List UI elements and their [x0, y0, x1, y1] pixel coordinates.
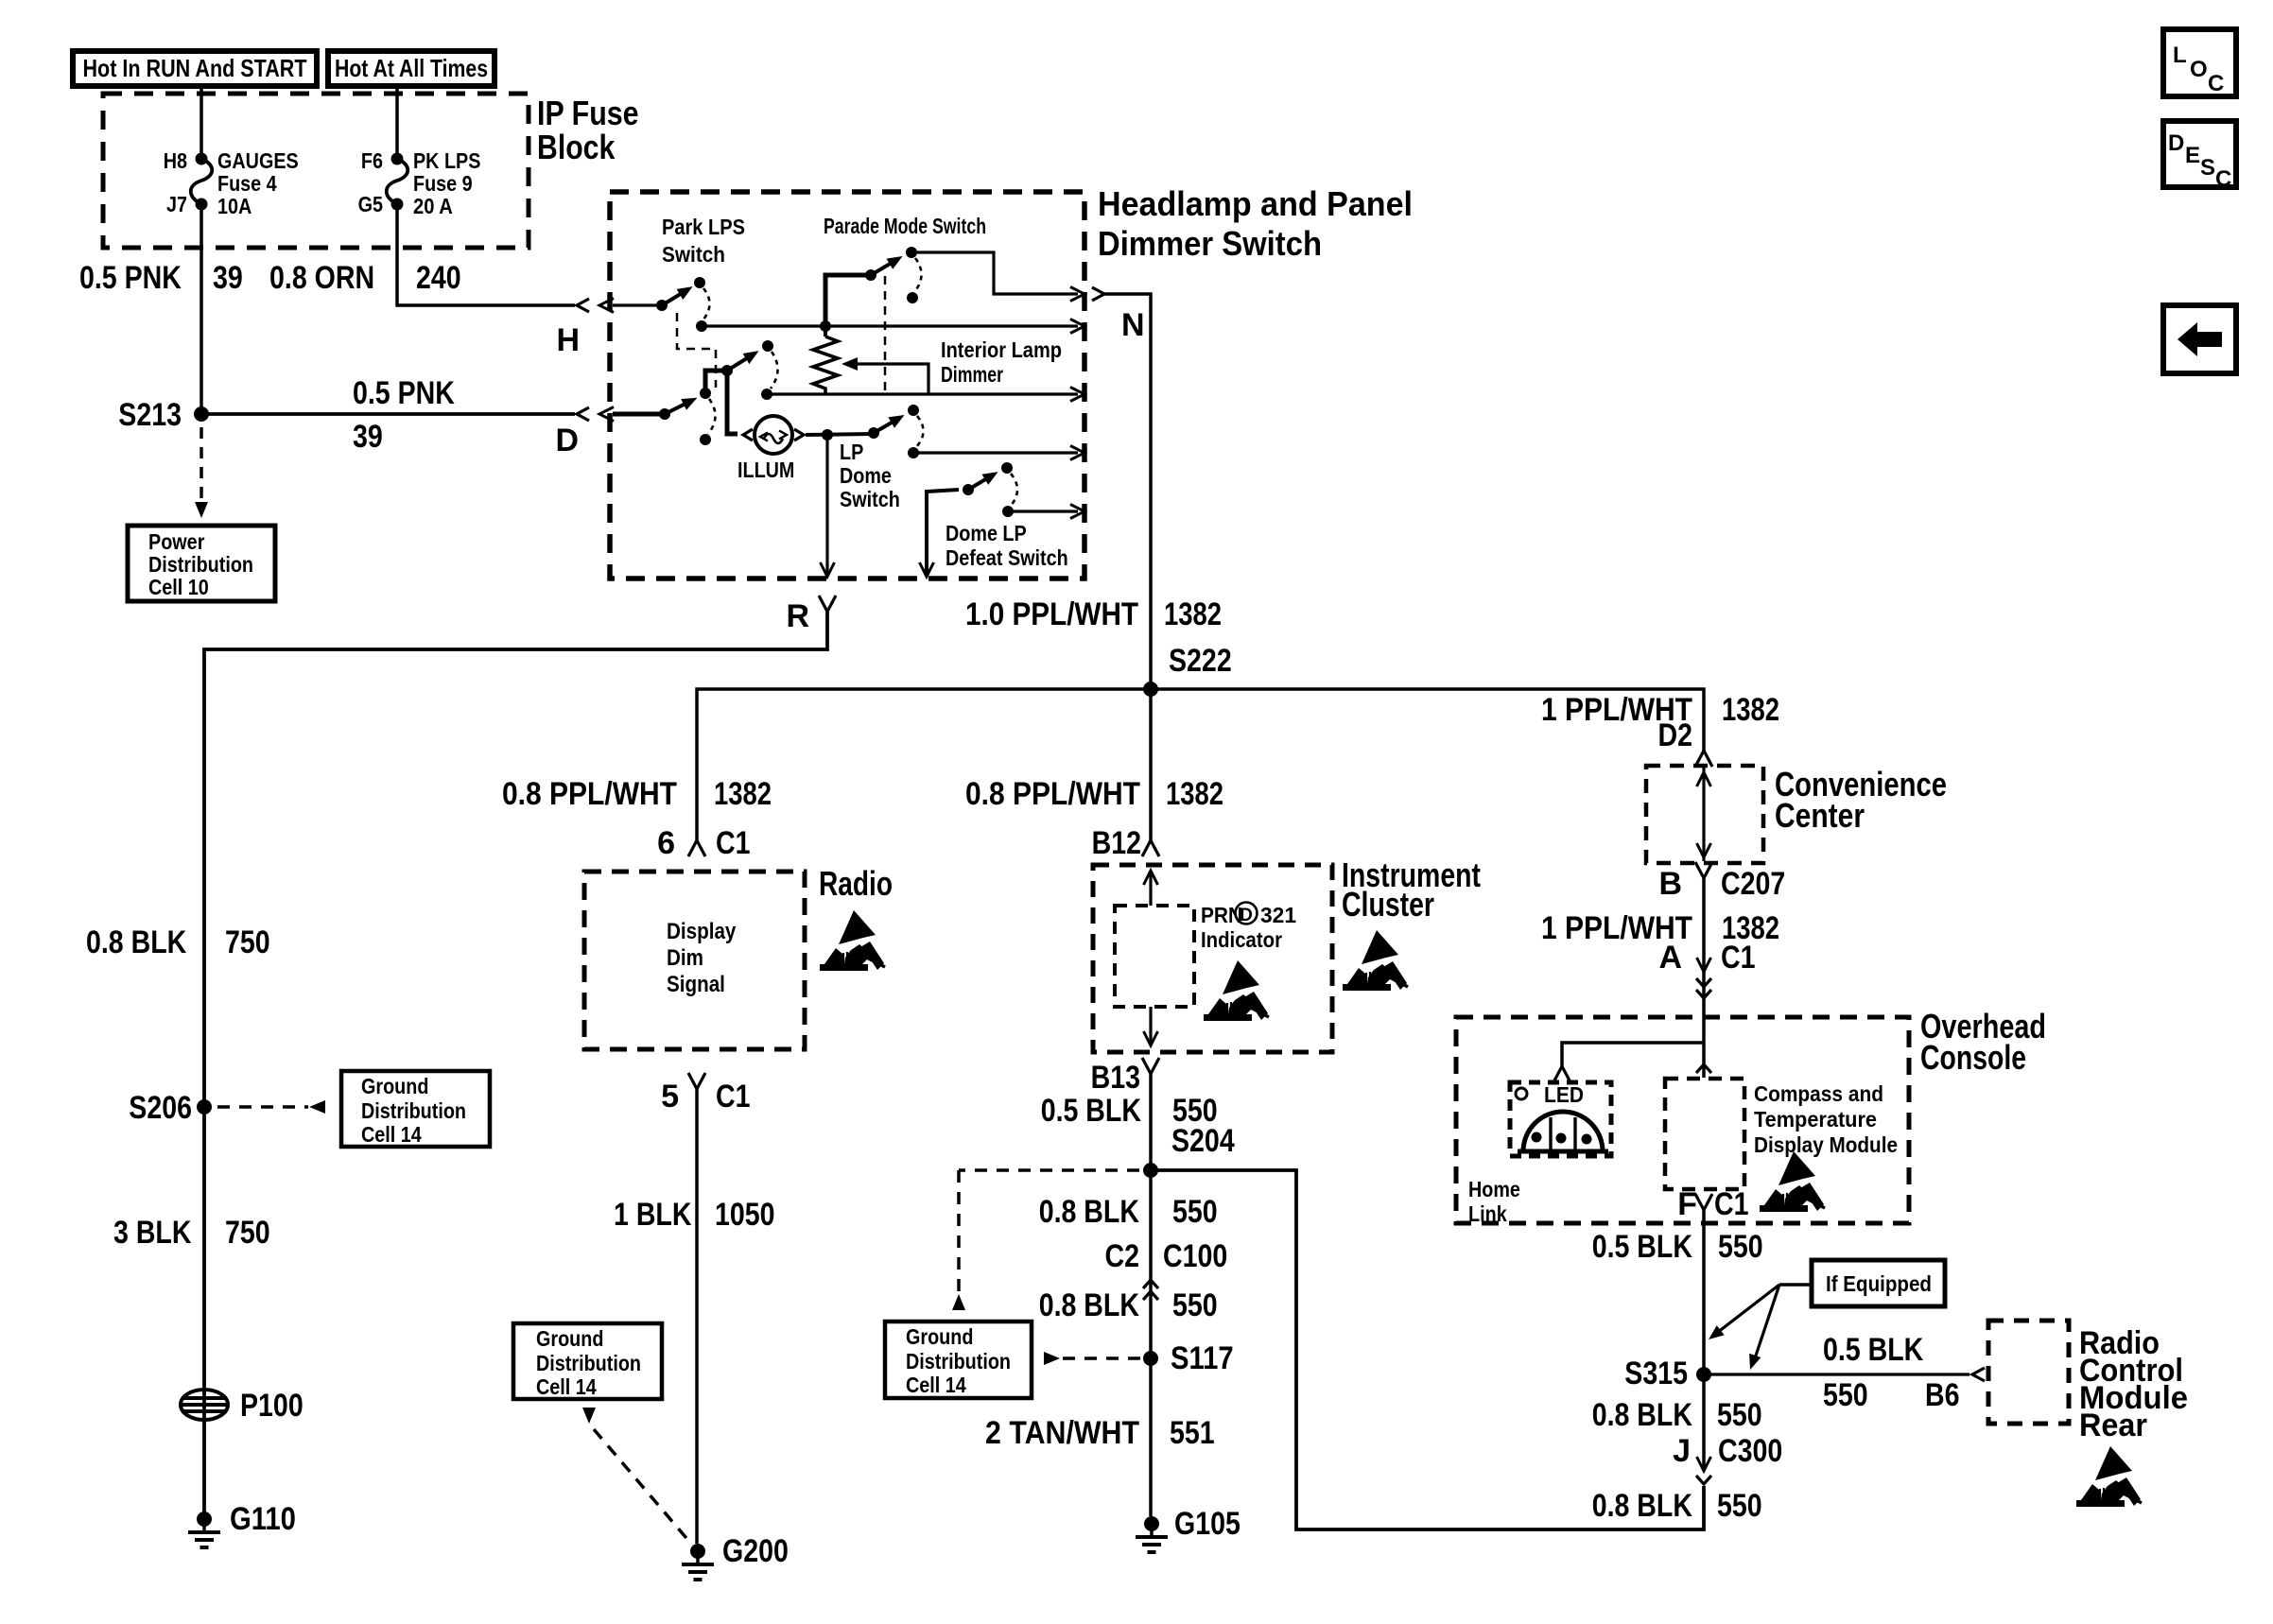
svg-text:550: 550	[1717, 1397, 1762, 1433]
svg-text:0.8 PPL/WHT: 0.8 PPL/WHT	[502, 776, 677, 812]
connector N and wire to S222	[1092, 287, 1104, 301]
svg-text:1382: 1382	[714, 776, 772, 812]
svg-text:Headlamp and Panel: Headlamp and Panel	[1098, 184, 1413, 223]
svg-text:Dim: Dim	[667, 945, 703, 971]
connector B12 fork	[1142, 840, 1159, 856]
svg-text:Cell 10: Cell 10	[148, 575, 209, 599]
svg-text:Home: Home	[1468, 1177, 1520, 1201]
svg-text:750: 750	[225, 1215, 270, 1251]
svg-text:If Equipped: If Equipped	[1826, 1271, 1932, 1296]
reference box: If Equipped	[1812, 1260, 1945, 1306]
pointer arrows from If Equipped	[1779, 1283, 1812, 1287]
fork to HomeLink LED	[1553, 1066, 1570, 1082]
svg-text:Display Module: Display Module	[1754, 1132, 1898, 1157]
wire: pole 3 pivot down to ILLUM lamp	[727, 371, 737, 434]
svg-text:Parade Mode Switch: Parade Mode Switch	[824, 214, 986, 238]
svg-text:B12: B12	[1092, 825, 1141, 861]
fuse F9 PK LPS 20A	[391, 153, 404, 165]
svg-text:550: 550	[1172, 1287, 1218, 1323]
wire: pole 2 contact up to panel dimmer pole pivot	[705, 371, 727, 393]
svg-text:ILLUM: ILLUM	[737, 458, 794, 482]
svg-text:750: 750	[225, 924, 270, 960]
ground G200	[690, 1544, 705, 1559]
connector F C1 fork	[1695, 1194, 1712, 1210]
svg-text:20 A: 20 A	[413, 194, 453, 218]
svg-text:240: 240	[416, 260, 461, 296]
svg-text:C1: C1	[1721, 940, 1756, 976]
wire: S222 left branch to radio	[697, 689, 1151, 840]
splice S315	[1696, 1367, 1711, 1382]
svg-text:Compass and: Compass and	[1754, 1081, 1883, 1106]
svg-text:LP: LP	[840, 440, 863, 464]
svg-text:0.5 BLK: 0.5 BLK	[1592, 1229, 1693, 1265]
wire: S222 right branch to convenience center	[1151, 689, 1704, 751]
svg-text:550: 550	[1172, 1194, 1218, 1230]
svg-text:Dimmer Switch: Dimmer Switch	[1098, 224, 1322, 263]
svg-text:1382: 1382	[1722, 692, 1779, 728]
svg-text:3 BLK: 3 BLK	[113, 1215, 192, 1251]
reference box: Ground Distribution Cell 14 (left)	[341, 1071, 490, 1147]
svg-text:Switch: Switch	[662, 242, 725, 267]
ILLUM lamp connectors and bulb	[743, 429, 753, 441]
connector B6 fork	[1972, 1368, 1985, 1381]
svg-text:Distribution: Distribution	[361, 1098, 466, 1123]
svg-text:C: C	[2215, 166, 2231, 192]
svg-text:J7: J7	[166, 192, 187, 216]
svg-text:Rear: Rear	[2079, 1408, 2147, 1443]
mechanical linkage (dashed) parade switch	[884, 276, 887, 394]
reference box: Power Distribution Cell 10	[128, 526, 275, 601]
svg-text:IP Fuse: IP Fuse	[537, 94, 639, 132]
panel lamps switch pole 3 (feeds ILLUM)	[721, 365, 733, 376]
splice S206	[197, 1099, 212, 1114]
Convenience Center dashed outline	[1646, 766, 1763, 863]
svg-text:Distribution: Distribution	[906, 1349, 1011, 1373]
ESD symbol (radio)	[820, 910, 885, 971]
svg-text:C207: C207	[1721, 866, 1785, 902]
dashed reference: S206 to Ground Distribution	[217, 1105, 308, 1109]
svg-text:Cell 14: Cell 14	[361, 1122, 422, 1147]
svg-text:Fuse 4: Fuse 4	[217, 171, 277, 196]
wire: C207 to overhead console	[1702, 878, 1706, 1017]
svg-text:D2: D2	[1658, 717, 1693, 753]
svg-text:1382: 1382	[1166, 776, 1223, 812]
svg-text:Indicator: Indicator	[1201, 927, 1282, 952]
ESD symbol (radio control module)	[2076, 1446, 2142, 1507]
LP Dome Switch	[868, 427, 879, 439]
wire: defeat switch output to right edge	[1008, 510, 1078, 512]
wire: parade switch to N output	[911, 252, 1078, 294]
svg-text:550: 550	[1718, 1229, 1763, 1265]
svg-text:LED: LED	[1544, 1082, 1584, 1107]
svg-text:0.8 ORN: 0.8 ORN	[269, 260, 374, 296]
svg-text:C1: C1	[716, 1079, 751, 1114]
junction dot parade feed on pole-1 line	[820, 320, 831, 332]
wire: S222 down to instrument cluster B12	[1149, 689, 1153, 840]
wire: S315 to radio control module B6	[1704, 1373, 1969, 1375]
svg-text:N: N	[1121, 307, 1145, 343]
svg-text:S206: S206	[129, 1090, 192, 1126]
svg-text:Distribution: Distribution	[148, 552, 253, 577]
svg-text:S204: S204	[1171, 1123, 1235, 1159]
svg-text:39: 39	[353, 419, 383, 455]
Radio dashed outline	[584, 872, 805, 1049]
svg-text:S117: S117	[1171, 1340, 1234, 1376]
wire through convenience center with arrows	[1702, 768, 1705, 861]
wire: LP dome switch output to right edge	[913, 451, 1078, 454]
svg-text:1.0 PPL/WHT: 1.0 PPL/WHT	[965, 596, 1138, 632]
svg-text:O: O	[2190, 57, 2208, 82]
svg-text:G5: G5	[358, 192, 384, 216]
svg-text:PK LPS: PK LPS	[413, 148, 480, 173]
svg-text:Temperature: Temperature	[1754, 1107, 1877, 1132]
svg-text:Ground: Ground	[361, 1074, 428, 1098]
svg-text:D: D	[555, 423, 579, 458]
svg-text:321: 321	[1260, 903, 1296, 927]
wire: Hot At All Times feed down to fuse 9	[395, 86, 399, 159]
park lamps switch pole 2 (lower, on D feed)	[659, 408, 670, 420]
svg-text:Block: Block	[537, 128, 616, 166]
svg-text:551: 551	[1170, 1415, 1215, 1451]
svg-text:Fuse 9: Fuse 9	[413, 171, 473, 196]
junction dot for LP dome feed	[822, 429, 833, 441]
svg-text:B13: B13	[1091, 1060, 1140, 1096]
ESD symbol (compass module)	[1760, 1151, 1825, 1212]
svg-text:Cell 14: Cell 14	[536, 1374, 597, 1399]
svg-text:C1: C1	[1714, 1186, 1749, 1222]
svg-text:D: D	[2168, 130, 2184, 156]
svg-text:0.8 BLK: 0.8 BLK	[1039, 1194, 1140, 1230]
svg-text:Dome LP: Dome LP	[946, 521, 1027, 545]
svg-text:0.5 PNK: 0.5 PNK	[353, 375, 455, 411]
ground G105	[1144, 1516, 1159, 1531]
svg-text:Radio: Radio	[819, 864, 893, 903]
svg-text:Ground: Ground	[906, 1324, 973, 1349]
connector D at dimmer switch (fork and arrow)	[577, 407, 589, 421]
svg-text:Cluster: Cluster	[1342, 885, 1434, 924]
svg-text:G110: G110	[230, 1501, 296, 1537]
svg-text:G200: G200	[722, 1533, 789, 1569]
LED dome symbol	[1523, 1112, 1603, 1151]
dashed reference arrow: S213 to Power Distribution	[200, 427, 203, 501]
svg-text:Park LPS: Park LPS	[662, 215, 745, 239]
svg-text:C: C	[2208, 71, 2224, 96]
chevron into compass module	[1696, 1064, 1711, 1073]
wire: ILLUM to LP dome switch	[806, 434, 874, 435]
PRND321 Indicator dashed box	[1115, 906, 1194, 1007]
svg-text:S315: S315	[1624, 1356, 1688, 1391]
LED dashed box	[1510, 1082, 1611, 1156]
wire: S204 branch to overhead console ground return	[1151, 1170, 1704, 1529]
wire: B13 down to G105	[1149, 1074, 1153, 1516]
svg-text:C1: C1	[716, 825, 751, 861]
svg-text:B: B	[1658, 866, 1682, 902]
arrow into PRND321 indicator	[1149, 871, 1152, 906]
wire: S315 down to J C300	[1702, 1374, 1706, 1471]
Overhead Console dashed outline	[1456, 1017, 1909, 1223]
dashed reference: S204 to Ground Distribution (right)	[959, 1168, 1139, 1172]
connector B13 fork	[1142, 1058, 1159, 1074]
wire: fuse 9 down and right to connector H	[397, 204, 575, 305]
Dome LP Defeat Switch	[927, 490, 959, 574]
svg-text:550: 550	[1823, 1377, 1868, 1413]
svg-text:Hot In RUN And START: Hot In RUN And START	[83, 54, 307, 82]
svg-text:1050: 1050	[715, 1197, 775, 1233]
svg-text:C2: C2	[1105, 1238, 1140, 1274]
reference box LOC	[2163, 29, 2236, 96]
svg-text:S222: S222	[1169, 643, 1232, 679]
dashed reference: Ground Distribution to S117	[1044, 1352, 1060, 1365]
arrow out of PRND321 indicator	[1149, 1007, 1152, 1045]
svg-text:0.5 BLK: 0.5 BLK	[1823, 1332, 1924, 1368]
connector R below dimmer switch	[819, 596, 836, 612]
connector 5 C1 fork below radio	[688, 1073, 705, 1089]
Instrument Cluster dashed outline	[1093, 865, 1332, 1052]
power feed box: Hot In RUN And START	[73, 51, 317, 86]
Compass and Temperature Display Module dashed box	[1665, 1079, 1744, 1189]
connector 6 C1 fork at radio	[688, 840, 705, 856]
svg-text:F6: F6	[361, 148, 383, 173]
svg-text:H8: H8	[164, 148, 187, 173]
svg-text:Dome: Dome	[840, 463, 892, 488]
svg-text:550: 550	[1717, 1488, 1762, 1524]
wire: LP dome junction down to R output	[825, 435, 828, 575]
svg-text:0.8 BLK: 0.8 BLK	[1039, 1287, 1140, 1323]
dashed reference: Ground Distribution to G200	[582, 1408, 596, 1424]
svg-text:Display: Display	[667, 919, 737, 944]
svg-text:1382: 1382	[1164, 596, 1222, 632]
connector B C207 fork	[1695, 862, 1712, 878]
ESD symbol (indicator)	[1204, 960, 1269, 1021]
svg-text:0.8 BLK: 0.8 BLK	[1592, 1488, 1693, 1524]
grommet P100	[181, 1390, 228, 1420]
parade mode switch	[825, 275, 871, 326]
svg-text:0.8 BLK: 0.8 BLK	[1592, 1397, 1693, 1433]
IP Fuse Block dashed outline	[103, 94, 529, 248]
interior lamp dimmer rheostat	[824, 326, 827, 337]
svg-text:Dimmer: Dimmer	[941, 362, 1003, 387]
svg-text:L: L	[2173, 43, 2187, 68]
svg-text:D: D	[1240, 906, 1253, 925]
svg-text:S213: S213	[118, 397, 182, 433]
mechanical linkage (dashed) park switch	[677, 313, 716, 388]
dimmer wiper arrow	[855, 364, 928, 394]
svg-text:Console: Console	[1920, 1038, 2026, 1077]
ESD symbol (instrument cluster)	[1343, 930, 1408, 991]
svg-text:1 BLK: 1 BLK	[614, 1197, 692, 1233]
svg-text:10A: 10A	[217, 194, 252, 218]
svg-text:Distribution: Distribution	[536, 1351, 641, 1375]
wire: Hot In RUN feed down to fuse 4	[200, 86, 203, 159]
ground G110	[197, 1512, 212, 1527]
svg-text:F: F	[1677, 1186, 1697, 1222]
svg-text:A: A	[1658, 940, 1682, 976]
svg-text:S: S	[2200, 155, 2215, 181]
svg-text:G105: G105	[1174, 1506, 1241, 1542]
svg-text:Link: Link	[1468, 1201, 1507, 1226]
splice S213	[194, 406, 209, 422]
reference box DESC	[2163, 121, 2236, 187]
svg-text:C100: C100	[1163, 1238, 1227, 1274]
svg-text:Ground: Ground	[536, 1326, 603, 1351]
svg-text:Switch: Switch	[840, 487, 900, 511]
svg-text:R: R	[786, 598, 809, 634]
back arrow box	[2163, 305, 2236, 373]
Headlamp and Panel Dimmer Switch dashed outline	[610, 192, 1084, 579]
svg-text:C300: C300	[1718, 1433, 1782, 1469]
svg-text:P100: P100	[240, 1388, 304, 1424]
wire: dimmer output to right edge	[767, 392, 1078, 395]
reference box: Ground Distribution Cell 14 (center)	[513, 1323, 662, 1399]
svg-text:0.8 PPL/WHT: 0.8 PPL/WHT	[965, 776, 1140, 812]
svg-text:Center: Center	[1775, 796, 1865, 835]
wire: park switch pole 1 output to right edge	[702, 324, 1078, 327]
svg-text:Power: Power	[148, 529, 204, 554]
splice S117	[1143, 1351, 1158, 1366]
svg-text:J: J	[1673, 1433, 1691, 1469]
svg-text:Hot At All Times: Hot At All Times	[335, 54, 488, 82]
Radio Control Module Rear dashed box	[1988, 1321, 2069, 1424]
svg-text:B6: B6	[1925, 1377, 1960, 1413]
wire: radio pin 5 to G200	[695, 1089, 699, 1544]
svg-text:0.8 BLK: 0.8 BLK	[86, 924, 187, 960]
connector H at dimmer switch (fork and arrow)	[577, 299, 589, 312]
svg-text:Cell 14: Cell 14	[906, 1373, 966, 1397]
wire: fuse 4 to S213	[200, 204, 203, 414]
wire: R return to ground run	[204, 612, 827, 1516]
svg-text:H: H	[556, 322, 580, 358]
wire: S213 to connector D, 0.5 PNK 39	[201, 412, 575, 416]
svg-text:Interior Lamp: Interior Lamp	[941, 337, 1062, 362]
svg-text:39: 39	[213, 260, 243, 296]
park lamps switch pole 1 (upper)	[656, 300, 668, 311]
svg-text:GAUGES: GAUGES	[217, 148, 299, 173]
svg-text:0.5 PNK: 0.5 PNK	[79, 260, 182, 296]
svg-text:5: 5	[661, 1079, 679, 1114]
svg-text:6: 6	[657, 825, 675, 861]
wire: overhead console internal branch	[1702, 1017, 1706, 1078]
svg-text:E: E	[2185, 143, 2200, 168]
svg-text:Signal: Signal	[667, 972, 725, 997]
svg-text:0.5 BLK: 0.5 BLK	[1041, 1093, 1142, 1129]
svg-text:Defeat Switch: Defeat Switch	[946, 545, 1068, 570]
power feed box: Hot At All Times	[328, 51, 495, 86]
wire: F C1 down to S315	[1702, 1210, 1706, 1374]
reference box: Ground Distribution Cell 14 (right)	[885, 1322, 1032, 1398]
fuse F4 GAUGES 10A	[196, 153, 208, 165]
svg-text:2 TAN/WHT: 2 TAN/WHT	[985, 1415, 1139, 1451]
